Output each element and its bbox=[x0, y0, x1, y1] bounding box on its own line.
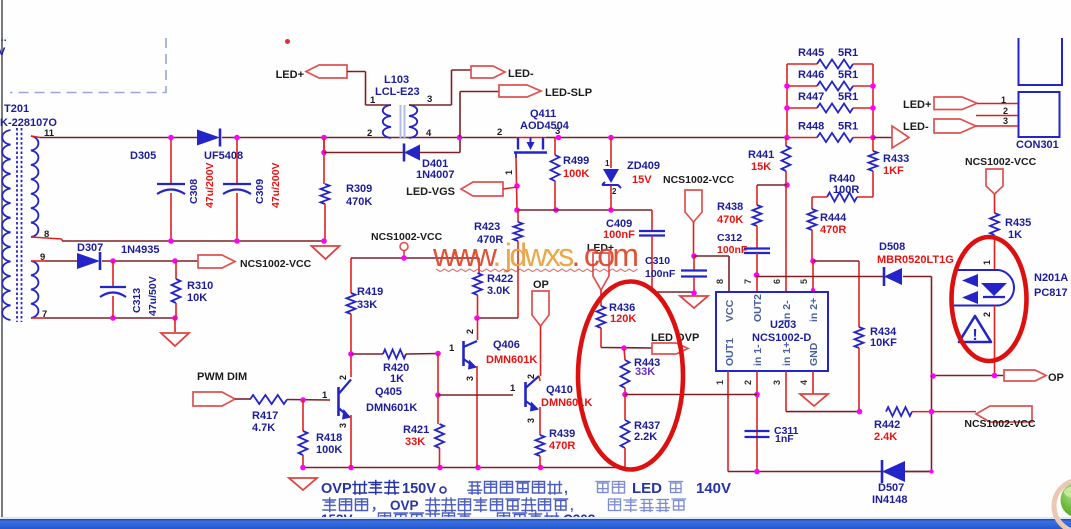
svg-text:www. jdwxs. com: www. jdwxs. com bbox=[432, 237, 639, 273]
svg-text:R435: R435 bbox=[1005, 217, 1031, 229]
svg-text:DMN601K: DMN601K bbox=[366, 402, 417, 414]
svg-text:OP: OP bbox=[533, 279, 549, 291]
svg-text:8: 8 bbox=[44, 229, 49, 240]
svg-text:D508: D508 bbox=[879, 241, 905, 253]
svg-text:R310: R310 bbox=[187, 280, 213, 292]
svg-text:Q410: Q410 bbox=[546, 384, 573, 396]
svg-text:7: 7 bbox=[743, 279, 753, 284]
svg-text:Q405: Q405 bbox=[375, 386, 402, 398]
svg-text:3: 3 bbox=[465, 376, 475, 381]
svg-text:V: V bbox=[0, 46, 6, 58]
svg-text:2: 2 bbox=[367, 128, 372, 139]
svg-text:R421: R421 bbox=[403, 424, 429, 436]
svg-text:2.2K: 2.2K bbox=[634, 431, 657, 443]
svg-text:47u/200V: 47u/200V bbox=[204, 162, 216, 208]
svg-text:IN4148: IN4148 bbox=[872, 494, 907, 506]
svg-text:120K: 120K bbox=[610, 313, 636, 325]
svg-text:OVP: OVP bbox=[390, 498, 419, 513]
svg-text:5: 5 bbox=[799, 279, 809, 284]
svg-text:OP: OP bbox=[1048, 372, 1064, 384]
svg-text:9: 9 bbox=[40, 252, 45, 263]
svg-text:D307: D307 bbox=[77, 242, 103, 254]
svg-text:1nF: 1nF bbox=[775, 433, 794, 445]
svg-text:2: 2 bbox=[526, 374, 536, 379]
svg-text:1K: 1K bbox=[390, 373, 404, 385]
svg-text:OVP: OVP bbox=[321, 481, 352, 497]
svg-text:3: 3 bbox=[338, 423, 348, 428]
svg-text:6: 6 bbox=[772, 279, 782, 284]
svg-text:C308: C308 bbox=[188, 179, 200, 204]
svg-text:，: ， bbox=[371, 498, 384, 513]
svg-text:4: 4 bbox=[426, 128, 432, 139]
svg-text:2: 2 bbox=[743, 380, 753, 385]
svg-text:VCC: VCC bbox=[724, 299, 736, 322]
svg-text:5R1: 5R1 bbox=[838, 69, 858, 81]
svg-text:PC817: PC817 bbox=[1034, 287, 1068, 299]
svg-text:OUT2: OUT2 bbox=[752, 294, 764, 322]
svg-text:150V: 150V bbox=[402, 481, 436, 497]
svg-text:1N4935: 1N4935 bbox=[121, 244, 160, 256]
svg-text:,: , bbox=[564, 481, 568, 497]
svg-text:1: 1 bbox=[322, 390, 328, 401]
svg-text:470K: 470K bbox=[346, 196, 372, 208]
svg-text:4.7K: 4.7K bbox=[252, 422, 275, 434]
svg-text:Q411: Q411 bbox=[530, 108, 556, 120]
svg-text:1: 1 bbox=[715, 380, 725, 385]
svg-text:100nF: 100nF bbox=[645, 268, 676, 280]
svg-text:in 1+: in 1+ bbox=[781, 342, 793, 366]
svg-text:2: 2 bbox=[982, 312, 992, 317]
svg-text:R448: R448 bbox=[798, 121, 824, 133]
svg-text:47u/50V: 47u/50V bbox=[147, 276, 159, 316]
svg-text:100K: 100K bbox=[563, 168, 589, 180]
svg-text:R417: R417 bbox=[252, 410, 278, 422]
svg-text:1: 1 bbox=[504, 170, 514, 175]
svg-text:OUT1: OUT1 bbox=[724, 338, 736, 366]
svg-text:33K: 33K bbox=[357, 299, 377, 311]
svg-text:100K: 100K bbox=[316, 444, 342, 456]
svg-text:NCS1002-VCC: NCS1002-VCC bbox=[965, 156, 1037, 168]
svg-text:R309: R309 bbox=[346, 183, 372, 195]
svg-text:15K: 15K bbox=[751, 161, 771, 173]
svg-text:100nF: 100nF bbox=[717, 244, 748, 256]
svg-text:2: 2 bbox=[465, 329, 475, 334]
svg-text:N201A: N201A bbox=[1034, 272, 1068, 284]
svg-text:NCS1002-VCC: NCS1002-VCC bbox=[964, 418, 1036, 430]
svg-text:R445: R445 bbox=[798, 47, 824, 59]
svg-text:R447: R447 bbox=[798, 91, 824, 103]
svg-text:470R: 470R bbox=[549, 440, 575, 452]
svg-text:33K: 33K bbox=[635, 366, 655, 378]
svg-text:1K: 1K bbox=[1008, 229, 1022, 241]
svg-text:3: 3 bbox=[526, 418, 536, 423]
svg-text:10K: 10K bbox=[187, 292, 207, 304]
svg-text:2.4K: 2.4K bbox=[874, 431, 897, 443]
svg-text:R438: R438 bbox=[717, 201, 743, 213]
svg-text:2: 2 bbox=[497, 127, 502, 138]
svg-text:140V: 140V bbox=[696, 480, 731, 497]
svg-text:PWM DIM: PWM DIM bbox=[197, 371, 247, 383]
svg-text:,: , bbox=[570, 498, 574, 513]
svg-text:in 2+: in 2+ bbox=[808, 298, 820, 322]
svg-text:R433: R433 bbox=[883, 153, 909, 165]
svg-text:1: 1 bbox=[605, 159, 610, 168]
svg-text:LED+: LED+ bbox=[276, 69, 304, 81]
svg-text:in 2-: in 2- bbox=[781, 300, 793, 322]
svg-text:1: 1 bbox=[510, 383, 516, 394]
svg-text:R422: R422 bbox=[487, 273, 513, 285]
svg-text:R446: R446 bbox=[798, 69, 824, 81]
svg-text:C310: C310 bbox=[645, 255, 670, 267]
svg-text:3: 3 bbox=[427, 94, 432, 105]
svg-text:AOD4504: AOD4504 bbox=[520, 120, 570, 132]
svg-text:C309: C309 bbox=[254, 179, 266, 204]
svg-text:…: … bbox=[0, 33, 7, 44]
svg-text:R418: R418 bbox=[316, 432, 342, 444]
svg-text:ZD409: ZD409 bbox=[627, 160, 660, 172]
svg-text:D507: D507 bbox=[878, 482, 904, 494]
svg-text:3: 3 bbox=[772, 380, 782, 385]
svg-text:5R1: 5R1 bbox=[838, 47, 858, 59]
svg-text:LED-VGS: LED-VGS bbox=[406, 186, 455, 198]
svg-text:3.0K: 3.0K bbox=[487, 285, 510, 297]
svg-text:R444: R444 bbox=[820, 212, 847, 224]
svg-text:in 1-: in 1- bbox=[752, 344, 764, 366]
svg-text:DMN601K: DMN601K bbox=[486, 354, 537, 366]
svg-text:1N4007: 1N4007 bbox=[416, 169, 455, 181]
svg-text:GND: GND bbox=[808, 342, 820, 366]
svg-text:DMN601K: DMN601K bbox=[541, 397, 592, 409]
svg-text:NCS1002-VCC: NCS1002-VCC bbox=[240, 258, 312, 270]
svg-text:33K: 33K bbox=[405, 436, 425, 448]
svg-text:LED-: LED- bbox=[508, 68, 534, 80]
svg-text:8: 8 bbox=[715, 279, 725, 284]
svg-text:2: 2 bbox=[1003, 106, 1008, 116]
svg-text:10KF: 10KF bbox=[870, 337, 897, 349]
svg-text:T201: T201 bbox=[4, 103, 29, 115]
svg-text:100R: 100R bbox=[833, 184, 859, 196]
svg-text:1: 1 bbox=[449, 343, 455, 354]
svg-text:LED-SLP: LED-SLP bbox=[545, 87, 592, 99]
svg-text:R423: R423 bbox=[474, 221, 500, 233]
svg-text:R419: R419 bbox=[357, 286, 383, 298]
svg-text:5R1: 5R1 bbox=[838, 121, 858, 133]
svg-text:MBR0520LT1G: MBR0520LT1G bbox=[877, 254, 954, 266]
svg-text:2: 2 bbox=[612, 187, 617, 196]
svg-text:LCL-E23: LCL-E23 bbox=[375, 86, 420, 98]
svg-text:C313: C313 bbox=[131, 288, 143, 313]
svg-text:470K: 470K bbox=[717, 214, 743, 226]
svg-text:D305: D305 bbox=[130, 150, 156, 162]
svg-text:3: 3 bbox=[1003, 116, 1008, 126]
svg-text:R499: R499 bbox=[563, 155, 589, 167]
svg-text:L103: L103 bbox=[384, 74, 409, 86]
svg-text:1: 1 bbox=[982, 260, 992, 265]
svg-text:C312: C312 bbox=[717, 232, 742, 244]
svg-text:4: 4 bbox=[799, 380, 809, 385]
svg-text:1: 1 bbox=[1001, 95, 1006, 105]
svg-text:R439: R439 bbox=[549, 428, 575, 440]
svg-text:470R: 470R bbox=[820, 224, 846, 236]
svg-text:CON301: CON301 bbox=[1016, 139, 1059, 151]
svg-text:!: ! bbox=[972, 327, 977, 344]
svg-text:15V: 15V bbox=[632, 174, 652, 186]
svg-text:LED-: LED- bbox=[903, 121, 929, 133]
svg-text:R441: R441 bbox=[748, 149, 774, 161]
svg-text:2: 2 bbox=[338, 375, 348, 380]
svg-text:Q406: Q406 bbox=[493, 339, 520, 351]
svg-text:1KF: 1KF bbox=[883, 165, 904, 177]
svg-text:LED+: LED+ bbox=[903, 99, 931, 111]
svg-text:R442: R442 bbox=[874, 419, 900, 431]
svg-text:NCS1002-VCC: NCS1002-VCC bbox=[371, 231, 443, 243]
svg-text:LED: LED bbox=[632, 480, 662, 497]
svg-text:5R1: 5R1 bbox=[838, 91, 858, 103]
svg-text:NCS1002-VCC: NCS1002-VCC bbox=[663, 174, 735, 186]
svg-text:47u/200V: 47u/200V bbox=[270, 162, 282, 208]
